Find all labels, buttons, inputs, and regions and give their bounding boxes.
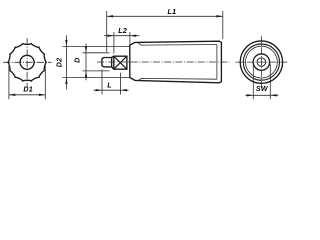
svg-text:L2: L2 <box>118 27 127 35</box>
svg-text:SW: SW <box>256 85 269 93</box>
svg-text:D: D <box>73 57 81 62</box>
svg-text:L: L <box>107 82 112 90</box>
svg-text:L1: L1 <box>167 8 176 16</box>
svg-text:D1: D1 <box>23 85 33 93</box>
svg-text:D2: D2 <box>55 58 63 68</box>
